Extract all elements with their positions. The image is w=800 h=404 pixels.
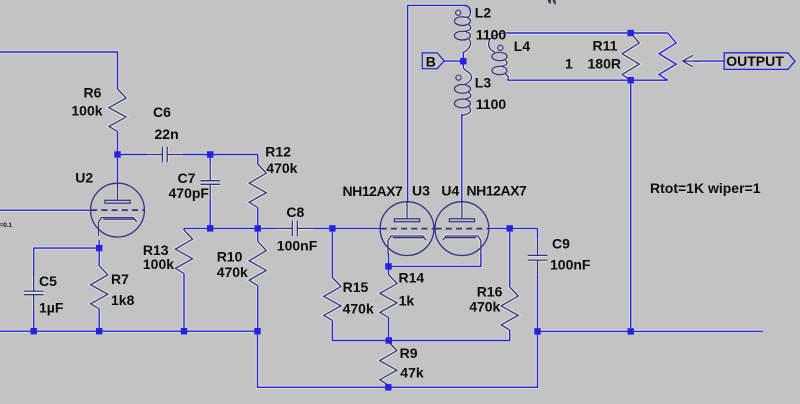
svg-text:470k: 470k: [469, 299, 500, 315]
svg-text:U2: U2: [75, 170, 93, 186]
svg-text:1100: 1100: [476, 27, 507, 43]
svg-text:100k: 100k: [71, 103, 102, 119]
svg-text:R9: R9: [400, 345, 418, 361]
svg-text:100nF: 100nF: [277, 238, 318, 254]
svg-text:NH12AX7: NH12AX7: [467, 183, 528, 199]
svg-text:R7: R7: [111, 271, 129, 287]
svg-text:L2: L2: [475, 4, 492, 20]
svg-text:100nF: 100nF: [550, 257, 591, 273]
svg-text:Rtot=1K wiper=1: Rtot=1K wiper=1: [650, 180, 761, 196]
svg-text:C7: C7: [178, 170, 196, 186]
svg-text:U4: U4: [441, 182, 459, 198]
svg-text:470k: 470k: [266, 160, 297, 176]
svg-text:47k: 47k: [400, 365, 424, 381]
svg-text:180R: 180R: [588, 55, 621, 71]
svg-text:1100: 1100: [476, 96, 507, 112]
svg-text:C5: C5: [39, 273, 57, 289]
svg-text:R10: R10: [217, 249, 243, 265]
svg-text:1: 1: [565, 55, 573, 71]
svg-text:R16: R16: [477, 283, 503, 299]
svg-text:C6: C6: [153, 104, 171, 120]
svg-text:C9: C9: [552, 236, 570, 252]
svg-text:U3: U3: [412, 182, 430, 198]
svg-text:R12: R12: [265, 143, 291, 159]
svg-text:NH12AX7: NH12AX7: [343, 183, 404, 199]
svg-text:470k: 470k: [343, 301, 374, 317]
svg-text:L4: L4: [514, 38, 531, 54]
svg-text:100k: 100k: [143, 256, 174, 272]
svg-text:R15: R15: [343, 279, 369, 295]
svg-text:=0.1: =0.1: [0, 223, 13, 229]
svg-text:1k: 1k: [399, 292, 415, 308]
svg-text:OUTPUT: OUTPUT: [726, 53, 784, 69]
svg-text:22n: 22n: [155, 126, 179, 142]
svg-text:1µF: 1µF: [39, 300, 64, 316]
svg-text:L3: L3: [475, 74, 492, 90]
svg-text:R11: R11: [593, 37, 618, 53]
svg-text:C8: C8: [286, 204, 304, 220]
svg-text:R6: R6: [84, 85, 102, 101]
svg-text:1k8: 1k8: [111, 292, 135, 308]
svg-text:R14: R14: [399, 270, 425, 286]
svg-text:B: B: [426, 53, 436, 69]
svg-text:470k: 470k: [217, 264, 248, 280]
svg-text:470pF: 470pF: [169, 185, 210, 201]
